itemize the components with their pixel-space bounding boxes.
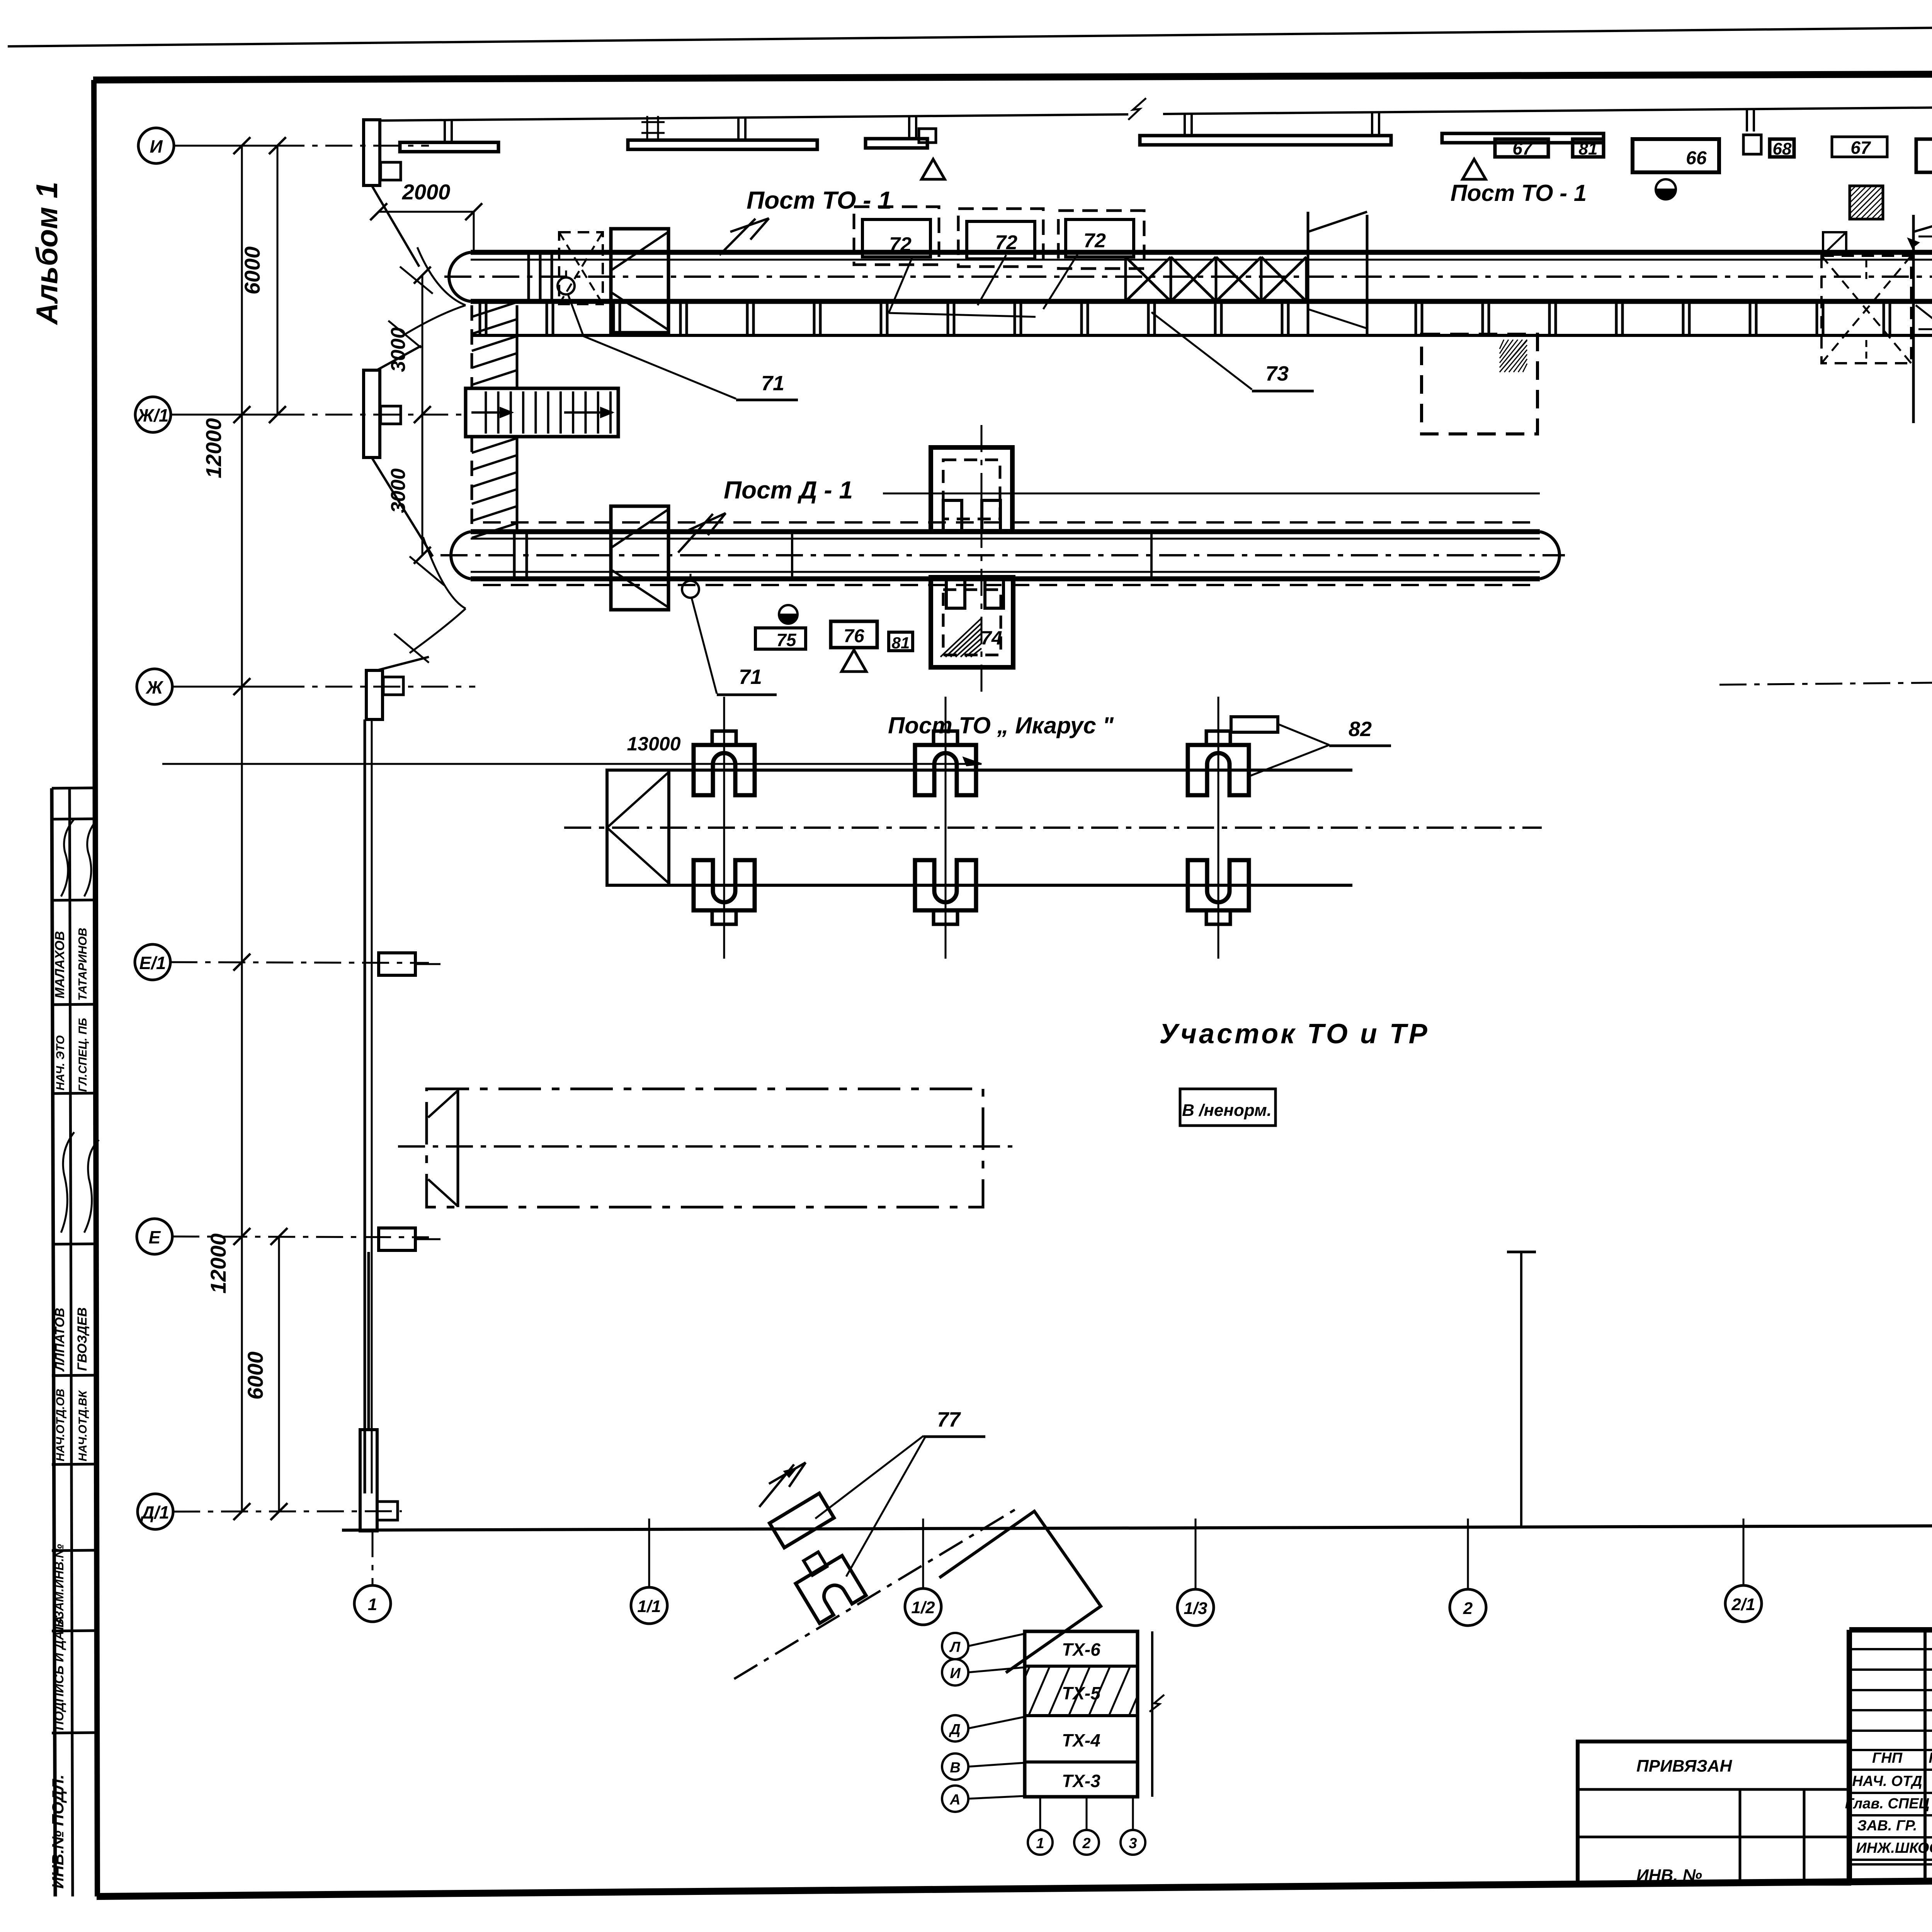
svg-text:2000: 2000 — [402, 180, 451, 204]
axis circle Ж (left) — [137, 669, 172, 704]
sig row line — [1849, 1836, 1932, 1838]
dim tick — [414, 406, 431, 423]
leader 71 a — [568, 294, 736, 399]
monorail beam 3 — [866, 139, 927, 148]
axis line Ж right part — [1719, 681, 1932, 685]
N fork mark d — [759, 1463, 806, 1507]
svg-text:Е: Е — [149, 1227, 161, 1247]
tilted clamp 77 — [788, 1543, 866, 1623]
equipment box 68 — [1770, 139, 1794, 157]
conveyor 1 center line — [444, 276, 1932, 278]
svg-text:Альбом 1: Альбом 1 — [30, 182, 64, 325]
dim tick — [370, 203, 387, 220]
sig table vertical — [1923, 1630, 1927, 1880]
diag centerline 77 — [734, 1509, 1016, 1679]
ikarus clamp top 3 — [1188, 745, 1249, 795]
vehicle front diag b — [428, 1179, 457, 1206]
svg-text:Д: Д — [949, 1721, 960, 1738]
conveyor 1 left end verticals — [527, 252, 530, 301]
svg-text:ВЗАМ.ИНВ.№: ВЗАМ.ИНВ.№ — [52, 1544, 66, 1628]
item triangle 76 — [842, 650, 866, 672]
stamp column divider 2 — [52, 819, 97, 819]
ikarus bottom line — [607, 884, 1352, 887]
thin line through posts — [883, 493, 1540, 495]
svg-text:В: В — [950, 1760, 960, 1776]
small square with diagonal — [1823, 232, 1846, 255]
stamp signature squiggle 1 — [61, 1132, 74, 1233]
crosshatched square — [1850, 186, 1883, 219]
svg-text:74: 74 — [981, 627, 1002, 649]
axis circle И (left) — [138, 128, 174, 163]
svg-text:1/1: 1/1 — [637, 1597, 661, 1616]
axis circle 1/2 (bottom) — [905, 1588, 941, 1625]
svg-text:71: 71 — [739, 665, 762, 689]
svg-text:Пост ТО - 1: Пост ТО - 1 — [1451, 180, 1587, 206]
dim tick — [269, 137, 286, 154]
left wall line lower — [364, 719, 366, 1493]
stamp column divider 9 — [52, 1550, 97, 1551]
pit circle 2 — [682, 581, 699, 598]
legend row line 2 — [1025, 1714, 1138, 1717]
hatched wall segment left upper — [471, 305, 473, 388]
svg-text:КОРОСТЕЛЕВ: КОРОСТЕЛЕВ — [1929, 1750, 1932, 1766]
dim tick — [233, 1228, 250, 1245]
conveyor 2 inner verticals mid — [791, 532, 793, 579]
svg-text:72: 72 — [1083, 230, 1106, 252]
privyazan row line 2 — [1578, 1836, 1849, 1838]
axis stub 1/1 — [648, 1519, 650, 1587]
legend row line 3 — [1025, 1760, 1138, 1764]
sig table empty row — [1849, 1648, 1932, 1650]
bottom wall line — [342, 1524, 1932, 1530]
dim line 3000 upper — [422, 275, 423, 555]
svg-text:ПОДПИСЬ И ДАТА: ПОДПИСЬ И ДАТА — [52, 1616, 66, 1730]
axis circle 1/1 (bottom) — [631, 1587, 667, 1624]
monorail beam 2 — [628, 140, 817, 150]
dim tick — [233, 678, 250, 695]
svg-text:1/2: 1/2 — [911, 1598, 935, 1617]
item box 81 — [889, 632, 913, 651]
legend circle 1 — [1028, 1830, 1053, 1855]
svg-text:ТХ-4: ТХ-4 — [1062, 1730, 1100, 1750]
sheet top border line — [8, 20, 1932, 46]
axis line Е/1 — [170, 962, 429, 963]
monorail hanger stem 6 — [1746, 109, 1748, 131]
axis line И — [174, 145, 277, 147]
svg-text:Д/1: Д/1 — [140, 1502, 169, 1522]
left wall pilaster at И — [364, 120, 380, 185]
dim tick — [414, 267, 431, 284]
svg-text:12000: 12000 — [206, 1233, 230, 1294]
axis line Д/1 — [173, 1511, 402, 1512]
axis stub 1/3 — [1195, 1519, 1197, 1589]
sig row line — [1849, 1792, 1932, 1794]
axis circle 1 (bottom) — [354, 1585, 391, 1622]
left wall pilaster box at Е — [379, 1228, 415, 1250]
svg-text:ТХ-6: ТХ-6 — [1062, 1639, 1100, 1660]
axis circle Ж/1 (left) — [135, 397, 171, 432]
svg-text:81: 81 — [892, 634, 910, 652]
sig table empty row — [1849, 1749, 1932, 1751]
svg-text:82: 82 — [1349, 718, 1372, 741]
svg-text:Глав. СПЕЦ: Глав. СПЕЦ — [1845, 1796, 1930, 1812]
drawing frame left edge — [94, 80, 97, 1896]
sig table empty row — [1849, 1730, 1932, 1732]
hatch blob in dashed rect — [1500, 340, 1527, 372]
legend line В — [968, 1763, 1025, 1767]
legend circle В — [942, 1753, 968, 1780]
legend stem 2 — [1086, 1797, 1088, 1830]
hanger hash symbol — [641, 116, 665, 139]
stamp column divider 10 — [52, 1631, 97, 1631]
svg-text:71: 71 — [761, 372, 784, 395]
leader 77 — [815, 1436, 923, 1519]
legend stem 1 — [1039, 1797, 1041, 1830]
svg-text:1: 1 — [1036, 1835, 1044, 1852]
drawing frame top edge — [93, 72, 1932, 80]
left wall pilaster at Д/1 — [360, 1430, 377, 1531]
legend circle Д — [942, 1715, 968, 1742]
gate diag lower a — [1308, 309, 1367, 328]
svg-text:ЗАВ. ГР.: ЗАВ. ГР. — [1857, 1818, 1917, 1834]
equipment box 67 b — [1832, 137, 1887, 157]
stamp signature squiggle 4 — [84, 819, 97, 896]
monorail hanger stem 1 — [444, 120, 446, 143]
sig table empty row — [1849, 1668, 1932, 1671]
crane runway line — [381, 114, 1128, 121]
svg-text:МАЛАХОВ: МАЛАХОВ — [53, 931, 67, 998]
monorail hanger stem 5 — [1371, 112, 1373, 135]
legend bracket — [1151, 1631, 1153, 1797]
legend circle Л — [942, 1633, 968, 1659]
leader 71 b — [1916, 305, 1932, 371]
conveyor 2 end verticals — [513, 532, 516, 579]
axis line Ж/1 — [171, 414, 277, 416]
legend stem 3 — [1132, 1797, 1134, 1830]
axis stub 2/1 — [1743, 1519, 1745, 1585]
stamp column divider 7 — [52, 1375, 97, 1376]
legend circle И — [942, 1659, 968, 1685]
title block outer left — [1847, 1630, 1852, 1883]
dim line outer — [241, 146, 243, 1512]
equipment box 66 a — [1633, 139, 1719, 172]
dim 13000 arrow — [964, 758, 981, 765]
privyazan row line — [1578, 1788, 1849, 1791]
legend line Л — [968, 1634, 1025, 1646]
hatched wall segment left lower — [471, 437, 473, 530]
dim tick — [465, 203, 482, 220]
stamp column divider 3 — [52, 900, 97, 900]
dim line 13000 — [162, 763, 981, 765]
svg-text:Л: Л — [949, 1639, 961, 1655]
dim line inner — [277, 146, 279, 415]
stamp column divider 5 — [52, 1093, 97, 1094]
dim line inner lower — [278, 1236, 280, 1512]
privyazan divider b — [1803, 1789, 1806, 1884]
ikarus left end box — [607, 770, 669, 885]
legend circle А — [942, 1786, 968, 1812]
svg-text:НАЧ.ОТД.ВК: НАЧ.ОТД.ВК — [77, 1389, 89, 1461]
svg-text:ТАТАРИНОВ: ТАТАРИНОВ — [76, 928, 89, 1001]
runway break mark — [1128, 98, 1146, 120]
left wall pilaster stem Д/1 — [367, 1252, 370, 1430]
axis stub 2 — [1467, 1519, 1469, 1589]
axis line Е — [172, 1236, 429, 1237]
svg-text:ГЛ.СПЕЦ. ПБ: ГЛ.СПЕЦ. ПБ — [77, 1018, 89, 1092]
dim tick — [233, 954, 250, 971]
svg-text:А: А — [949, 1792, 960, 1808]
dim tick — [233, 406, 250, 423]
svg-text:3000: 3000 — [387, 468, 410, 513]
monorail hanger stem 4 — [1184, 114, 1186, 136]
vehicle front diag a — [428, 1091, 457, 1117]
stamp column divider 1 — [52, 788, 97, 788]
left wall break И-Ж/1 — [372, 185, 419, 267]
canopy frame lower — [931, 577, 1013, 667]
svg-text:Участок ТО и ТР: Участок ТО и ТР — [1159, 1019, 1429, 1049]
conveyor 2 bottom edge — [471, 577, 1540, 582]
sig table empty row — [1849, 1689, 1932, 1691]
svg-text:68: 68 — [1773, 139, 1792, 158]
axis circle Д/1 (left) — [138, 1494, 173, 1529]
conveyor 2 left cap — [451, 532, 471, 579]
v-nenorm box — [1180, 1089, 1276, 1126]
svg-text:ПРИВЯЗАН: ПРИВЯЗАН — [1636, 1757, 1732, 1776]
arrow into band b1 — [1908, 239, 1918, 247]
tilted rect 77 — [770, 1493, 834, 1548]
conveyor 2 dashed line below — [483, 584, 1540, 586]
dashed boxes 72 — [854, 207, 939, 265]
left wall pilaster at Ж/1 — [364, 370, 380, 457]
vehicle front line — [457, 1089, 459, 1207]
legend circle 3 — [1121, 1830, 1145, 1855]
element 82 pill — [1231, 717, 1278, 732]
svg-text:6000: 6000 — [240, 247, 264, 295]
svg-text:1: 1 — [368, 1595, 377, 1614]
canopy hatch — [940, 618, 981, 657]
svg-text:76: 76 — [844, 626, 864, 646]
svg-text:ОСТРОВЕРХОВА: ОСТРОВЕРХОВА — [1918, 1840, 1932, 1856]
svg-text:ИНЖ.ШК: ИНЖ.ШК — [1856, 1840, 1919, 1856]
stamp column divider 11 — [52, 1733, 97, 1733]
sig row line — [1849, 1769, 1932, 1771]
left wall stub Е/1 — [415, 963, 440, 965]
axis line Ж — [172, 686, 277, 688]
privyazan divider a — [1739, 1789, 1742, 1884]
svg-text:81: 81 — [1579, 139, 1598, 158]
svg-text:73: 73 — [1265, 362, 1289, 385]
conveyor 2 dashed line above — [483, 521, 1540, 524]
svg-text:Ж/1: Ж/1 — [136, 405, 168, 425]
sig row line — [1849, 1859, 1932, 1861]
legend line А — [968, 1796, 1025, 1799]
stairs left — [466, 388, 618, 437]
svg-text:Е/1: Е/1 — [139, 953, 166, 973]
svg-text:И: И — [950, 1665, 961, 1682]
left wall pilaster at Ж — [366, 670, 383, 719]
canopy lower U slot a — [946, 577, 965, 608]
canopy centerline — [981, 425, 983, 699]
monorail hanger stem 3 — [908, 116, 910, 139]
dim tick — [233, 137, 250, 154]
ikarus clamp top 2 — [915, 745, 976, 795]
monorail beam 5 — [1442, 133, 1604, 143]
svg-text:ТХ-5: ТХ-5 — [1062, 1683, 1101, 1703]
svg-text:2: 2 — [1463, 1599, 1473, 1618]
tilted square 77 — [939, 1511, 1101, 1673]
solid boxes 72 — [862, 219, 930, 257]
svg-text:6000: 6000 — [243, 1352, 267, 1400]
stamp column divider 6 — [52, 1244, 97, 1244]
equipment box 66 b — [1916, 139, 1932, 172]
monorail beam 1 — [400, 143, 498, 152]
axis circle 2 (bottom) — [1450, 1589, 1486, 1626]
sig row bottom — [1849, 1863, 1932, 1866]
sig row line — [1849, 1814, 1932, 1816]
canopy frame upper — [931, 447, 1012, 531]
svg-text:1/3: 1/3 — [1184, 1599, 1207, 1618]
equipment box 67 a — [1495, 139, 1548, 157]
ikarus clamp bottom 2 — [915, 860, 976, 910]
svg-text:67: 67 — [1512, 138, 1533, 158]
ikarus clamp bottom 1 — [694, 860, 755, 910]
dim tick — [269, 406, 286, 423]
item box 76 — [831, 621, 877, 648]
ikarus center line — [564, 827, 1542, 829]
pit circle left — [558, 277, 575, 294]
dim ext line — [473, 212, 475, 251]
title block outer top — [1849, 1627, 1932, 1633]
hanger box a — [919, 129, 936, 143]
svg-text:2/1: 2/1 — [1731, 1595, 1755, 1614]
N fork mark c — [678, 513, 726, 553]
vehicle center line — [398, 1145, 1012, 1148]
svg-text:72: 72 — [889, 233, 912, 256]
stamp signature squiggle 3 — [61, 819, 74, 896]
svg-text:Пост Д - 1: Пост Д - 1 — [724, 476, 853, 504]
svg-text:12000: 12000 — [201, 418, 226, 478]
svg-text:66: 66 — [1686, 148, 1707, 168]
leader 72 a — [889, 258, 912, 313]
conveyor 1 left cap — [449, 252, 471, 301]
band1 left frame box — [611, 229, 668, 333]
left wall stub Е — [415, 1238, 440, 1240]
leader 73 — [1151, 312, 1252, 389]
ikarus clamp bottom 3 — [1188, 860, 1249, 910]
vehicle outline — [427, 1089, 983, 1207]
svg-text:77: 77 — [937, 1408, 961, 1431]
stamp column divider 4 — [52, 1004, 97, 1005]
half-filled circle a — [1656, 179, 1676, 199]
equipment box 81 a — [1573, 139, 1604, 157]
monorail beam 4 — [1140, 136, 1391, 145]
axis circle 1/3 (bottom) — [1177, 1589, 1214, 1626]
leader 72 c — [1043, 253, 1078, 309]
legend circle 2 — [1074, 1830, 1099, 1855]
hanger box b — [1743, 135, 1761, 154]
svg-text:ГВОЗДЕВ: ГВОЗДЕВ — [75, 1307, 90, 1371]
band2 left frame box — [611, 506, 668, 610]
walkway bottom line — [471, 334, 1932, 337]
item box 75 — [755, 628, 806, 649]
svg-text:ЛЛПАТОВ: ЛЛПАТОВ — [53, 1308, 67, 1372]
hanger triangle b — [1463, 159, 1486, 179]
svg-text:В /ненорм.: В /ненорм. — [1182, 1101, 1272, 1120]
partition T line a — [1520, 1252, 1522, 1528]
conveyor 1 inner line — [471, 259, 1932, 261]
legend line Д — [968, 1717, 1025, 1728]
svg-text:ИНВ.№ ПОДЛ.: ИНВ.№ ПОДЛ. — [49, 1774, 67, 1889]
leader 72 b — [978, 255, 1006, 305]
ikarus top line — [607, 769, 1352, 772]
dashed X box mid — [1821, 256, 1911, 363]
svg-text:НАЧ. ОТД: НАЧ. ОТД — [1852, 1773, 1922, 1789]
svg-text:67: 67 — [1850, 138, 1871, 158]
stamp column divider 8 — [52, 1464, 97, 1464]
svg-text:НАЧ. ЭТО: НАЧ. ЭТО — [54, 1035, 67, 1090]
canopy upper U slot b — [982, 500, 1000, 531]
axis circle 2/1 (bottom) — [1725, 1585, 1762, 1622]
svg-text:НАЧ.ОТД.ОВ: НАЧ.ОТД.ОВ — [54, 1389, 67, 1461]
monorail hanger stem 2 — [737, 117, 740, 140]
axis circle Е (left) — [137, 1219, 172, 1254]
conveyor 2 inner top — [471, 538, 1540, 540]
half circle item — [779, 605, 798, 624]
left wall break Ж/1-Ж — [372, 457, 433, 556]
conveyor 2 top edge — [471, 529, 1540, 534]
canopy upper U slot a — [943, 500, 962, 531]
drawing frame bottom edge — [97, 1875, 1932, 1896]
hanger triangle a — [922, 159, 945, 179]
svg-text:ИНВ. №: ИНВ. № — [1636, 1866, 1702, 1885]
conveyor 1 top edge — [471, 250, 1932, 255]
axis stub 1 — [372, 1530, 374, 1585]
axis circle Е/1 (left) — [135, 944, 170, 980]
legend row line 1 — [1025, 1665, 1138, 1668]
conveyor 2 center line — [440, 554, 1565, 556]
stamp column inner divider — [70, 788, 73, 1896]
gate verticals b — [1912, 215, 1915, 423]
axis stub 1/2 — [922, 1519, 924, 1588]
svg-text:Ж: Ж — [146, 677, 164, 697]
canopy lower U slot b — [985, 577, 1003, 608]
conveyor 1 bottom edge — [471, 299, 1932, 304]
svg-text:3: 3 — [1129, 1835, 1137, 1852]
legend box — [1025, 1631, 1138, 1797]
svg-text:72: 72 — [995, 231, 1017, 254]
ikarus clamp top 1 — [694, 745, 755, 795]
dashed rect below band — [1422, 334, 1537, 434]
svg-text:13000: 13000 — [627, 733, 680, 755]
left wall pilaster box at Е/1 — [379, 953, 415, 975]
sig table empty row — [1849, 1709, 1932, 1711]
dim tick — [414, 547, 431, 564]
svg-text:ГНП: ГНП — [1872, 1750, 1903, 1766]
gate verticals a — [1307, 212, 1310, 335]
svg-text:Пост ТО „ Икарус ": Пост ТО „ Икарус " — [888, 713, 1114, 738]
stamp signature squiggle 2 — [84, 1140, 99, 1233]
svg-text:Пост ТО - 1: Пост ТО - 1 — [747, 186, 892, 214]
dim tick — [233, 1503, 250, 1520]
dim line 2000 — [379, 211, 474, 213]
leader 71 c — [692, 598, 717, 694]
N fork mark a — [719, 218, 769, 255]
svg-text:И: И — [150, 136, 163, 156]
conveyor 2 right cap — [1540, 532, 1560, 579]
privyazan box — [1578, 1742, 1849, 1884]
svg-text:2: 2 — [1082, 1835, 1090, 1852]
svg-text:ТХ-3: ТХ-3 — [1062, 1771, 1100, 1791]
